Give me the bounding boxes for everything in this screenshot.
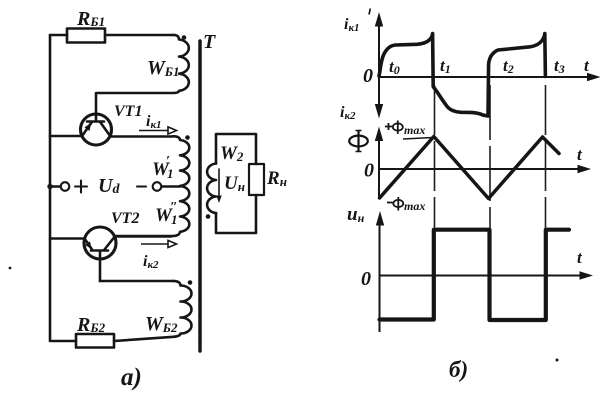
svg-text:VT2: VT2 [111,210,139,227]
svg-text:VT1: VT1 [114,103,142,120]
svg-text:а): а) [121,364,142,391]
svg-text:0: 0 [363,65,373,87]
svg-text:1: 1 [171,212,178,227]
svg-text:1: 1 [167,166,174,181]
svg-text:б): б) [449,357,468,382]
svg-text:max: max [404,199,425,213]
svg-text:0: 0 [364,160,374,182]
svg-text:0: 0 [361,268,371,290]
svg-text:max: max [404,123,425,137]
svg-text:T: T [203,31,216,53]
